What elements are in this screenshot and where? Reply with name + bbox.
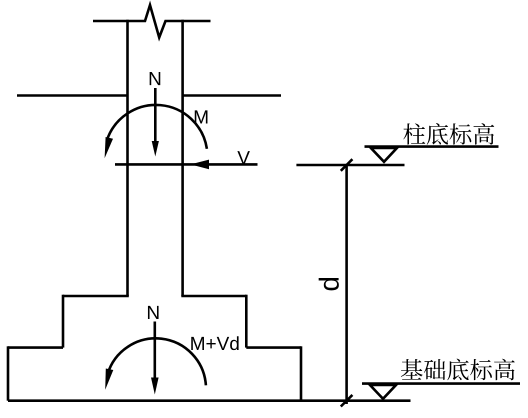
foundation step1 top left (63, 295, 129, 298)
column-bottom elevation triangle (371, 148, 397, 162)
label 基础底标高 (foundation bottom elevation) (401, 359, 515, 381)
moment M arc (top) (107, 105, 207, 149)
column left edge (126, 20, 129, 296)
axial force N arrow (bottom) (151, 322, 159, 395)
ground line right segment (183, 94, 281, 97)
foundation step2 right edge (300, 346, 303, 400)
column base line (115, 163, 258, 166)
label V (237, 151, 250, 164)
dimension tick bottom (341, 395, 353, 407)
label d (rotated) (319, 278, 339, 290)
foundation-bottom elevation line (362, 382, 520, 385)
dimension reference line top (296, 164, 404, 167)
foundation step1 right edge (245, 295, 248, 348)
column top break line (93, 5, 211, 38)
label M (top) (195, 110, 208, 123)
shear force V arrowhead (191, 160, 210, 170)
foundation-bottom elevation triangle (370, 385, 396, 399)
dimension line d (345, 165, 348, 404)
label M+Vd (191, 336, 238, 350)
label 柱底标高 (column bottom elevation) (403, 123, 494, 145)
label N (top) (150, 72, 161, 85)
dimension tick top (341, 159, 353, 171)
foundation step1 top right (181, 295, 246, 298)
axial force N arrow (top) (152, 88, 159, 157)
foundation step1 left edge (62, 295, 65, 348)
label N (bottom) (148, 306, 159, 319)
column right edge (181, 20, 184, 296)
foundation bottom line (8, 399, 411, 402)
moment M+Vd arc arrowhead (bottom) (105, 369, 113, 390)
foundation step2 top right (246, 346, 301, 349)
moment M arc arrowhead (top) (105, 137, 113, 158)
foundation step2 top left (8, 346, 63, 349)
moment M+Vd arc (bottom) (108, 338, 206, 385)
ground line left segment (17, 94, 128, 97)
column-bottom elevation line (365, 145, 499, 148)
foundation step2 left edge (7, 346, 10, 400)
